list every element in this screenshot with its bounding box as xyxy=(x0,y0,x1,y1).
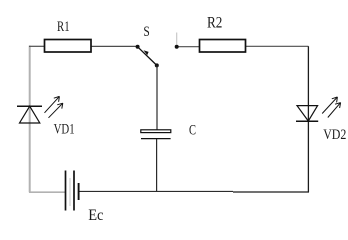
svg-text:VD2: VD2 xyxy=(323,127,346,143)
svg-text:R1: R1 xyxy=(57,19,70,35)
svg-text:VD1: VD1 xyxy=(54,121,75,137)
svg-text:R2: R2 xyxy=(207,15,222,32)
svg-text:Ec: Ec xyxy=(88,207,103,224)
svg-text:C: C xyxy=(189,123,196,139)
svg-text:S: S xyxy=(143,24,149,40)
